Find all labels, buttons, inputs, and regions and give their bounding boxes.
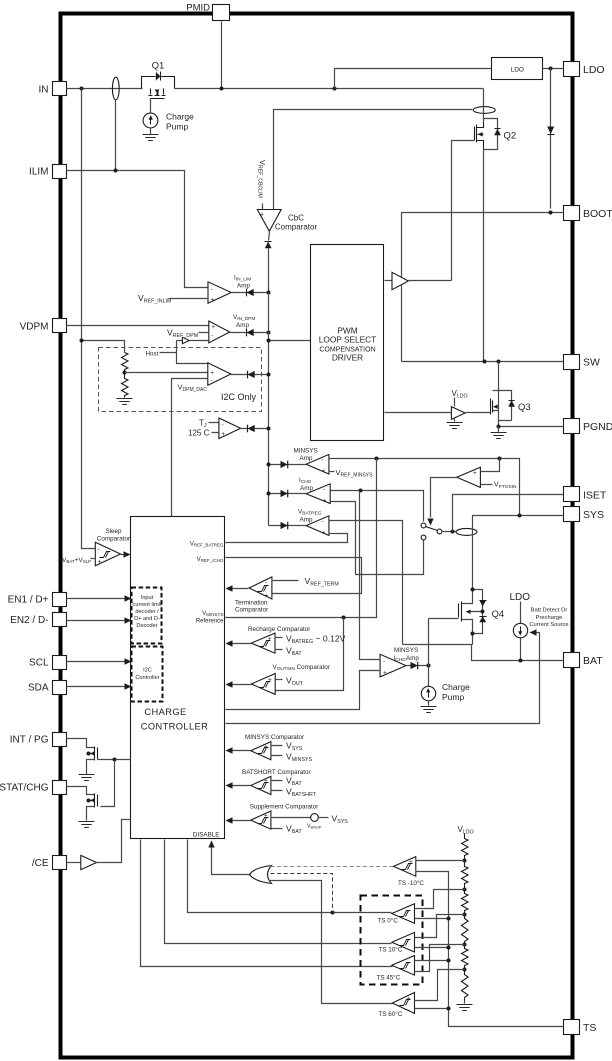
wire PWM to Q3 gate buffer (385, 412, 452, 414)
svg-text:+: + (98, 559, 102, 566)
svg-text:CHARGE: CHARGE (144, 707, 186, 717)
wire BATSHORT output arrow (231, 785, 251, 787)
svg-text:Input: Input (141, 595, 154, 601)
pin PGND (564, 419, 612, 434)
svg-text:DISABLE: DISABLE (193, 832, 220, 839)
dashed box TS window (361, 896, 423, 985)
transistor FET1 INT open-drain (79, 747, 98, 781)
wire ISET pin down to switch (453, 495, 564, 532)
wire PWM to Q2 gate driver (385, 280, 393, 282)
wire buffer to Q3 gate (466, 412, 491, 414)
node dashed OR tap (331, 911, 335, 915)
diode VIN_DPM output (247, 329, 254, 337)
svg-text:ICHGAmp: ICHGAmp (394, 655, 420, 663)
wire MINSYS plus (329, 471, 335, 473)
wire TS-10 minus to TS line (416, 872, 564, 1027)
svg-text:+: + (211, 324, 215, 331)
wire BATSHORT inputs (271, 781, 283, 791)
op-amp VBATREG amp (298, 509, 329, 537)
wire TS45 top to TS line (415, 960, 449, 962)
diode VBATREG output (281, 522, 288, 530)
wire driver output to Q2 gate line (409, 280, 452, 282)
node ladder taps (463, 859, 467, 972)
wire termination minus (272, 580, 299, 582)
wire supplement plus to VSUP circle (271, 817, 311, 819)
comparator termination (235, 577, 272, 614)
wire TS60 top from tap5 (415, 970, 465, 1001)
svg-text:Supplement Comparator: Supplement Comparator (250, 804, 319, 811)
wire bus to PWM block (269, 340, 311, 342)
wire OR input TS60 solid (269, 881, 393, 1004)
svg-text:+: + (383, 670, 387, 677)
comparator TS10 (379, 932, 415, 953)
wire VREF_ICHG to termination plus (226, 558, 362, 594)
wire MINSYS ICHG output diode node (407, 665, 429, 667)
wire VREF_DPM to amp (199, 332, 209, 334)
wire ellipse tap down to ILIM wire (115, 100, 117, 171)
svg-text:-: - (407, 1007, 409, 1014)
wire SYS rail (473, 516, 564, 532)
buffer CE (81, 855, 97, 869)
svg-text:BAT: BAT (583, 655, 603, 667)
wire supplement output arrow (231, 820, 251, 822)
svg-text:Comparator: Comparator (97, 536, 130, 543)
svg-text:decoder /: decoder / (135, 609, 159, 615)
wire recharge output arrow (231, 643, 252, 645)
wire TJ inputs (209, 423, 219, 433)
svg-text:LDO: LDO (510, 592, 531, 603)
wire VPTOSIN plus (481, 459, 500, 472)
wire VPTOSIN output to switch actuator (431, 478, 457, 518)
wire VBATREG output to bus (269, 525, 307, 527)
wire STAT/CHG to FET2 drain (67, 787, 95, 795)
svg-text:VREF_CBCLIM: VREF_CBCLIM (257, 160, 268, 198)
comparator MINSYS (245, 734, 304, 761)
wire BOOT pin to bootstrap corner (402, 213, 564, 362)
svg-text:Amp: Amp (300, 516, 313, 523)
wire TS10 plus from tap3 (415, 915, 465, 938)
svg-text:Reference: Reference (196, 619, 224, 625)
transistor Q3 (491, 362, 531, 427)
comparator TS45 (377, 956, 415, 982)
svg-text:VREF_ICHG: VREF_ICHG (197, 557, 224, 563)
current sense ellipse at Q2 (473, 107, 495, 114)
svg-text:IN: IN (39, 84, 49, 95)
svg-text:+: + (221, 431, 225, 438)
wire TS0 plus from tap2 (415, 890, 465, 909)
svg-text:VIN_DPM: VIN_DPM (233, 314, 255, 322)
wire TJ output to bus (241, 428, 269, 430)
comparator TS-10 (394, 857, 425, 887)
bus wire vertical (268, 293, 270, 526)
svg-text:-: - (264, 823, 266, 830)
svg-text:VBATREG − 0.12V: VBATREG − 0.12V (286, 634, 346, 646)
svg-text:SYS: SYS (583, 509, 604, 521)
op-amp VDPM_DAC (178, 363, 231, 393)
wire EN2 arrow (67, 620, 125, 622)
svg-text:INT / PG: INT / PG (10, 734, 49, 745)
svg-text:-: - (409, 870, 411, 877)
buffer host DAC (182, 337, 189, 343)
svg-text:SW: SW (583, 356, 600, 368)
wire MINSYS ICHG minus (360, 491, 381, 660)
wire MINSYS ICHG plus from controller (226, 671, 381, 710)
wire sleep plus (91, 558, 96, 560)
svg-text:Amp: Amp (300, 455, 313, 462)
svg-text:+: + (264, 743, 268, 750)
svg-text:TS -10°C: TS -10°C (398, 879, 424, 887)
dashed box I2C Only (99, 348, 262, 412)
wire PMID pin down to Q1 drain rail (221, 22, 223, 89)
diode MINSYS output (281, 461, 288, 469)
svg-text:VSYS: VSYS (332, 813, 349, 825)
pin BOOT (564, 206, 612, 221)
svg-text:Q4: Q4 (492, 609, 505, 620)
svg-text:VLDO: VLDO (458, 825, 474, 836)
svg-text:-: - (211, 286, 213, 293)
diode IN_LIM output (247, 289, 254, 297)
svg-text:+: + (322, 468, 326, 475)
svg-text:-: - (211, 333, 213, 340)
svg-text:-: - (323, 486, 325, 493)
svg-text:+: + (473, 470, 477, 477)
svg-text:TS 45°C: TS 45°C (377, 973, 401, 981)
wire VIN_DPM output to bus (230, 332, 269, 334)
svg-text:Recharge Comparator: Recharge Comparator (248, 626, 310, 633)
pin PMID (186, 3, 229, 21)
wire MINSYS comp output arrow (231, 750, 251, 752)
svg-text:IIN_LIM: IIN_LIM (234, 275, 251, 283)
pin BAT (564, 653, 604, 668)
comparator BATSHORT (242, 769, 311, 796)
wire CE buffer to controller (97, 820, 131, 863)
wire Q1 drain to Q2 drain (175, 88, 484, 90)
node LDO branch (333, 87, 337, 91)
svg-text:TS: TS (583, 1022, 596, 1034)
svg-text:VOUTSIN Comparator: VOUTSIN Comparator (273, 664, 330, 672)
svg-text:MINSYS: MINSYS (394, 647, 418, 654)
pin EN2/D- (10, 613, 66, 627)
wire controller bottom line 3 (188, 840, 392, 913)
wire IN pin to Q1 source (67, 88, 143, 90)
wire termination output arrow (231, 588, 249, 590)
svg-text:+: + (210, 370, 214, 377)
ground Q3 buffer (454, 419, 456, 422)
svg-text:Decoder: Decoder (136, 623, 157, 629)
wire host buffer to VIN_DPM amp (190, 340, 209, 342)
wire DISABLE from OR gate (212, 847, 250, 875)
charge pump 2 (421, 682, 471, 713)
transistor Q1 (142, 60, 175, 112)
wire gate bus down to FET2 (101, 760, 115, 807)
wire controller bottom line 1 (141, 840, 393, 967)
svg-text:-: - (98, 547, 100, 554)
svg-text:+: + (407, 996, 411, 1003)
svg-text:VSYS: VSYS (286, 741, 303, 753)
wire SDA arrow (67, 686, 125, 688)
svg-text:D+ and D-: D+ and D- (134, 616, 160, 622)
pin SCL (29, 656, 66, 670)
wire SYS node down to Q4 drain (472, 532, 474, 590)
wire OR input dashed to TS0 line (271, 874, 333, 913)
svg-text:VBAT: VBAT (286, 776, 302, 788)
pin STAT/CHG (0, 781, 67, 795)
svg-text:+: + (264, 778, 268, 785)
svg-text:125 C: 125 C (188, 428, 210, 437)
svg-text:/CE: /CE (32, 858, 49, 869)
wire Q2 drain down (483, 89, 485, 123)
wire node up to Q4 gate and down to charge pump (428, 619, 430, 687)
wire CbC output to bus (269, 232, 270, 293)
switch ISET/ICHG (421, 523, 442, 540)
svg-text:Controller: Controller (135, 675, 159, 681)
wire supplement minus (271, 828, 283, 830)
op-amp ICHG amp (299, 477, 330, 505)
svg-text:-: - (264, 789, 266, 796)
pin IN (39, 82, 67, 96)
svg-text:-: - (210, 378, 212, 385)
svg-text:Precharge: Precharge (536, 615, 563, 621)
svg-text:TS 0°C: TS 0°C (378, 917, 399, 925)
svg-text:ISET: ISET (583, 489, 607, 501)
wire switch common to ellipse (442, 531, 457, 533)
diode ICHG output (281, 490, 288, 498)
wire MINSYS minus sense line (329, 459, 520, 516)
wire OR input TS-10 dashed (271, 866, 394, 868)
svg-text:SDA: SDA (28, 683, 49, 694)
wire VBATREG minus to BAT node (329, 521, 403, 645)
wire Host tee (160, 341, 209, 364)
wire VDPM_DAC output to bus (231, 374, 269, 376)
transistor FET2 STAT open-drain (79, 794, 98, 828)
comparator VPTOSIN (457, 467, 481, 488)
gate OR disable (250, 866, 272, 884)
wire EN1 arrow (67, 598, 125, 600)
wire VBATREG plus from VREF_BATREG (226, 534, 348, 543)
diode TJ output (248, 425, 255, 433)
diode VDPM_DAC output (248, 371, 255, 379)
offset circle VBSUP (311, 814, 319, 822)
wire FET1 gate to controller (98, 759, 131, 761)
ground ladder (464, 1001, 466, 1004)
op-amp MINSYS amp (294, 448, 329, 476)
svg-text:MINSYS: MINSYS (294, 448, 318, 455)
svg-text:VREF_INLIM: VREF_INLIM (138, 293, 171, 305)
wire Q4 source to VBATREG sense (403, 644, 473, 646)
svg-text:+: + (409, 859, 413, 866)
svg-text:VBAT+VSLP: VBAT+VSLP (62, 557, 91, 564)
svg-text:Pump: Pump (166, 122, 188, 132)
svg-text:Comparator: Comparator (275, 223, 318, 232)
current sense ellipse ISET (456, 528, 477, 535)
wire batt detect control from controller (226, 633, 540, 724)
svg-text:VBSUP: VBSUP (307, 824, 322, 830)
wire MINSYS amp output to bus (269, 464, 307, 466)
svg-text:-: - (221, 421, 223, 428)
wire VLDO stem (454, 398, 456, 407)
svg-text:VMINSYS: VMINSYS (202, 611, 223, 617)
block charge controller (131, 517, 225, 839)
wire CbC sense line (274, 110, 473, 210)
op-amp VIN_DPM amp (209, 314, 256, 343)
pin ISET (564, 487, 607, 502)
charge pump 1 (143, 112, 195, 141)
svg-text:Termination: Termination (235, 600, 268, 607)
node divider tap (123, 371, 127, 375)
wire ICHG amp output to bus (269, 493, 307, 495)
dashed box I2C controller (132, 647, 163, 702)
svg-text:LOOP SELECT: LOOP SELECT (319, 335, 377, 345)
dashed box input current limit decoder (132, 588, 162, 644)
svg-text:TS 60°C: TS 60°C (379, 1010, 403, 1018)
comparator supplement (250, 804, 319, 831)
wire IN bus vertical down to sleep comparator (82, 89, 96, 549)
svg-text:Amp: Amp (237, 283, 250, 290)
pin EN1/D+ (8, 593, 67, 607)
svg-text:-: - (268, 689, 270, 696)
transistor Q4 (459, 588, 505, 645)
wire TS10 minus to TS line (415, 947, 449, 949)
svg-text:MINSYS Comparator: MINSYS Comparator (245, 734, 304, 741)
svg-text:+: + (268, 636, 272, 643)
current sense ellipse on IN wire (112, 77, 119, 100)
pin /CE (32, 856, 67, 870)
svg-text:Comparator: Comparator (235, 607, 268, 614)
svg-text:+: + (322, 530, 326, 537)
svg-text:PMID: PMID (186, 3, 210, 14)
svg-text:Q2: Q2 (504, 131, 517, 142)
svg-text:LDO: LDO (583, 64, 605, 76)
wire BAT rail (472, 645, 564, 661)
svg-text:SCL: SCL (29, 658, 49, 669)
wire INT/PG to FET1 drain (67, 739, 95, 748)
wire current source to BAT rail (520, 638, 522, 661)
svg-text:+: + (268, 677, 272, 684)
svg-text:+: + (260, 212, 264, 219)
svg-text:VDPM: VDPM (20, 321, 49, 332)
svg-text:Host: Host (146, 350, 159, 357)
wire recharge inputs (275, 638, 283, 650)
svg-text:VREF_BATREG: VREF_BATREG (190, 542, 224, 548)
pin SDA (28, 681, 67, 695)
wire ICHG plus to switch bottom throw (331, 502, 424, 575)
wire VMINSYS ref to VOUT comparator minus (276, 618, 344, 691)
wire IN_LIM amp output to bus (232, 292, 269, 294)
comparator sleep (95, 528, 130, 566)
pin INT/PG (10, 733, 67, 747)
resistor divider top (122, 353, 129, 373)
wire VDPM_DAC minus from controller (172, 379, 208, 517)
wire Q4 gate line (429, 618, 459, 620)
svg-text:I2C: I2C (143, 668, 152, 674)
svg-text:Q1: Q1 (152, 60, 165, 71)
node IN junction (80, 87, 84, 91)
resistor divider bottom (122, 373, 129, 398)
wire VOUT output arrow (231, 684, 252, 686)
svg-text:PGND: PGND (583, 421, 612, 433)
svg-text:TS 10°C: TS 10°C (379, 945, 403, 953)
svg-text:STAT/CHG: STAT/CHG (0, 783, 49, 794)
wire LDO to current source (520, 602, 522, 624)
svg-text:CbC: CbC (288, 214, 304, 223)
wire VREF_INLIM to amp (169, 298, 209, 300)
pin TS (564, 1020, 597, 1035)
wire PMID rail up to LDO block (335, 69, 492, 89)
arrowhead switch actuator (427, 519, 433, 526)
svg-text:Pump: Pump (442, 692, 464, 702)
resistor ladder TS (462, 834, 469, 1001)
svg-text:Current Source: Current Source (529, 622, 568, 628)
pin SW (564, 355, 601, 370)
svg-text:-: - (383, 658, 385, 665)
ground divider (117, 399, 133, 405)
wire Q2 gate from driver (452, 141, 475, 281)
svg-text:CONTROLLER: CONTROLLER (141, 722, 209, 732)
svg-text:Amp: Amp (236, 322, 249, 329)
svg-text:ILIM: ILIM (29, 167, 48, 178)
svg-text:VREF_MINSYS: VREF_MINSYS (336, 468, 374, 479)
svg-text:-: - (322, 457, 324, 464)
svg-text:VMINSYS: VMINSYS (286, 752, 313, 764)
transistor Q2 (475, 119, 517, 362)
op-amp IN_LIM amp (208, 275, 251, 304)
pin ILIM (29, 165, 66, 179)
comparator TJ (188, 418, 241, 439)
wire PGND rail (499, 426, 564, 428)
svg-text:+: + (264, 813, 268, 820)
comparator TS0 (378, 904, 415, 925)
diode CbC output (265, 242, 272, 249)
wire VOUT plus (276, 679, 283, 681)
svg-text:Charge: Charge (166, 112, 194, 122)
svg-text:BOOT: BOOT (583, 208, 612, 220)
wire MINSYS comp inputs (271, 746, 283, 756)
svg-text:EN2 / D-: EN2 / D- (10, 615, 48, 626)
wire TS45 bottom from tap4 (415, 945, 465, 972)
wire divider tap to VDPM_DAC amp (125, 372, 208, 374)
wire VMINSYS reference line (226, 459, 377, 618)
svg-text:LDO: LDO (511, 67, 524, 74)
svg-text:Charge: Charge (442, 682, 470, 692)
wire controller bottom line 2 (165, 840, 392, 944)
svg-text:EN1 / D+: EN1 / D+ (8, 594, 49, 605)
pin SYS (564, 507, 605, 522)
svg-text:I2C Only: I2C Only (221, 392, 257, 402)
comparator CbC (257, 160, 318, 232)
buffer Q3 gate (451, 407, 465, 420)
ground Q3 source (498, 427, 500, 433)
svg-text:VBAT: VBAT (286, 824, 302, 836)
wire ICHG minus to switch top (331, 491, 424, 522)
svg-text:VBAT: VBAT (286, 646, 302, 658)
pin LDO (564, 62, 605, 77)
block LDO (492, 58, 543, 80)
wire LDO block to LDO pin (543, 68, 564, 70)
svg-text:VDPM_DAC: VDPM_DAC (178, 383, 208, 394)
svg-text:DRIVER: DRIVER (332, 353, 363, 363)
wire TS0 minus to TS line (415, 918, 449, 920)
comparator recharge (248, 626, 310, 655)
svg-text:Q3: Q3 (518, 402, 531, 413)
wire sleep output arrow into controller (121, 554, 125, 556)
svg-text:-: - (322, 518, 324, 525)
diode LDO-BOOT (547, 127, 554, 135)
comparator TS60 (379, 993, 415, 1019)
comparator VOUTSIN (251, 664, 330, 696)
svg-text:VBATSHRT: VBATSHRT (286, 787, 317, 799)
svg-text:BATSHORT Comparator: BATSHORT Comparator (242, 769, 311, 776)
wire TS-10 plus to tap1 (416, 860, 465, 862)
